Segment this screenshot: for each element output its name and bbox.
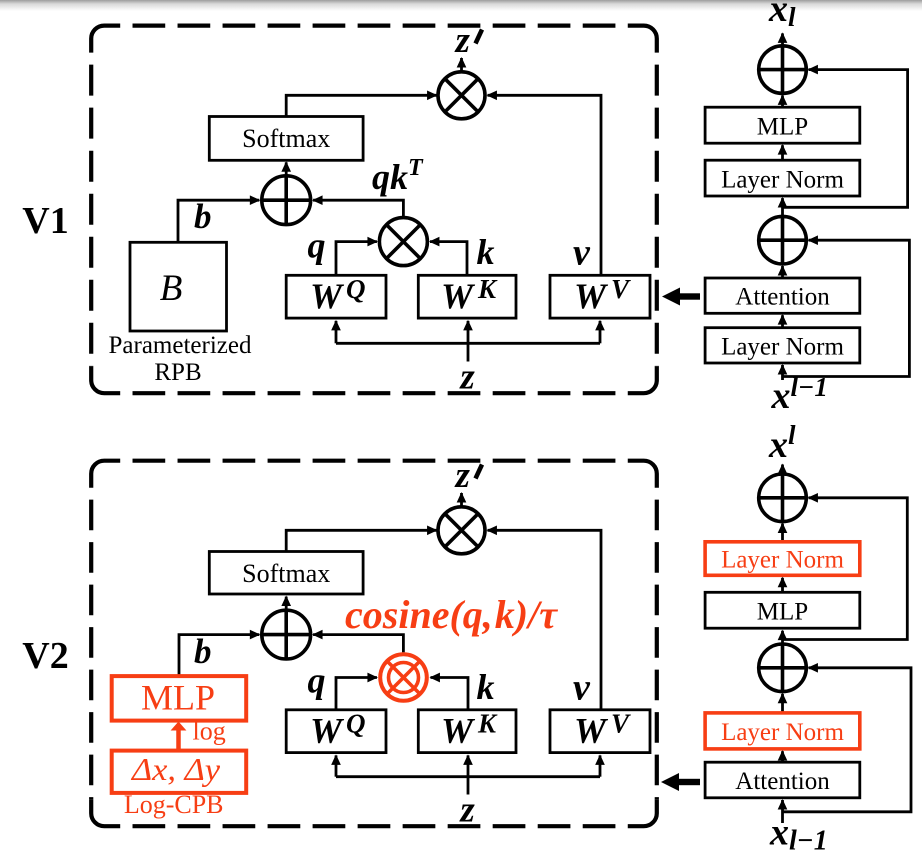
wire z to WV <box>599 755 602 776</box>
wire add to softmax <box>285 597 288 611</box>
wire LayerNorm1 to add1 <box>781 524 784 542</box>
svg-text:K: K <box>477 709 498 739</box>
WV box <box>550 275 650 318</box>
svg-text:Attention: Attention <box>735 768 830 795</box>
svg-text:W: W <box>574 276 609 316</box>
svg-text:Q: Q <box>346 709 366 739</box>
svg-text:Δx, Δy: Δx, Δy <box>130 751 221 787</box>
wire z to WV <box>599 321 602 343</box>
svg-text:q: q <box>308 661 326 701</box>
wire k from WK to multiply <box>431 678 469 710</box>
svg-text:Layer Norm: Layer Norm <box>721 547 844 574</box>
svg-text:v: v <box>573 232 591 274</box>
wire multiply to z' <box>460 58 463 72</box>
svg-text:k: k <box>477 232 495 272</box>
svg-text:z: z <box>454 20 471 61</box>
wire LayerNorm2 to Attention <box>781 315 784 328</box>
WK box <box>418 710 516 753</box>
Layer Norm box (before attention) <box>705 328 860 363</box>
wire z to WK <box>467 321 470 362</box>
wire softmax output to multiply <box>286 95 436 116</box>
svg-text:Layer Norm: Layer Norm <box>721 333 844 360</box>
svg-text:z: z <box>458 790 475 831</box>
svg-text:W: W <box>574 711 609 751</box>
svg-text:Parameterized: Parameterized <box>109 332 252 359</box>
Softmax box <box>209 117 363 161</box>
svg-text:Log-CPB: Log-CPB <box>124 790 224 819</box>
svg-text:B: B <box>160 268 183 309</box>
svg-text:q: q <box>308 226 326 266</box>
wire z distribution bus <box>336 342 600 345</box>
wire z to WQ <box>335 321 338 343</box>
svg-text:W: W <box>441 276 476 316</box>
WK box <box>418 275 516 318</box>
svg-text:V2: V2 <box>22 635 68 677</box>
wire x_{l-1} input to LayerNorm2 <box>781 365 784 380</box>
wire z to WQ <box>335 755 338 776</box>
wire MLP to add1 <box>781 95 784 107</box>
wire skip connection (upper) <box>783 498 908 640</box>
svg-text:xl: xl <box>768 0 796 32</box>
wire LayerNorm2 to add2 <box>781 694 784 713</box>
svg-text:V1: V1 <box>22 200 68 242</box>
svg-text:z: z <box>458 357 475 398</box>
svg-text:v: v <box>573 667 591 709</box>
wire add1 to x_l <box>781 33 784 45</box>
wire add2 to LayerNorm <box>781 198 784 216</box>
wire add2 to MLP <box>781 631 784 644</box>
add node (attention skip) <box>759 644 807 692</box>
svg-text:Softmax: Softmax <box>242 124 330 153</box>
wire x_{l-1} input to Attention <box>781 800 784 823</box>
wire z to WK <box>467 755 470 794</box>
Attention box <box>705 278 860 313</box>
add node (attention skip) <box>759 216 807 264</box>
add node (b + qkT) <box>262 176 311 225</box>
wire add to softmax <box>285 162 288 176</box>
svg-text:W: W <box>310 711 345 751</box>
wire Attention to LayerNorm2 <box>781 751 784 762</box>
wire cosine from multiply to add <box>313 635 403 653</box>
wire skip connection (lower) <box>783 668 912 812</box>
wire q from WQ to multiply <box>336 242 377 275</box>
wire b from B box to add <box>178 200 259 242</box>
Attention box <box>705 762 860 798</box>
Softmax box <box>209 552 363 595</box>
svg-text:W: W <box>310 276 345 316</box>
add node (MLP skip) <box>759 474 807 522</box>
Layer Norm box (red, after attention) <box>705 713 860 749</box>
wire MLP to LayerNorm1 <box>781 578 784 593</box>
wire add1 to x^l <box>781 465 784 474</box>
B box (parameterized bias) <box>130 242 227 331</box>
arrow attention applies to attention in block <box>678 779 700 785</box>
svg-text:z: z <box>454 455 471 496</box>
svg-text:log: log <box>193 717 226 746</box>
wire z distribution bus <box>336 775 600 778</box>
MLP box <box>705 592 860 628</box>
Layer Norm box (red, after MLP) <box>705 542 860 576</box>
WQ box <box>286 710 386 753</box>
wire v from WV to multiply <box>488 95 602 275</box>
svg-text:K: K <box>477 274 498 304</box>
svg-text:k: k <box>477 667 495 707</box>
svg-text:Layer Norm: Layer Norm <box>721 719 844 746</box>
svg-text:Layer Norm: Layer Norm <box>721 166 844 193</box>
svg-text:V: V <box>611 709 631 739</box>
multiply node (scaled cosine, red) <box>380 654 427 701</box>
V1 dashed block border <box>91 26 657 394</box>
add node (MLP skip) <box>759 46 807 94</box>
wire skip connection (lower) <box>783 240 910 376</box>
svg-text:V: V <box>611 274 631 304</box>
wire k from WK to multiply <box>430 242 467 275</box>
multiply node (matmul of softmax and v) <box>438 507 485 554</box>
add node (b + cosine) <box>262 610 311 659</box>
wire qkT from multiply to add <box>313 200 403 218</box>
wire log arrow from dxdy to MLP (red) <box>176 730 181 751</box>
top shadow bar <box>0 0 922 11</box>
multiply node (q x k) <box>379 218 427 266</box>
svg-text:b: b <box>194 632 212 671</box>
multiply node (matmul of softmax and v) <box>438 72 485 119</box>
dx,dy box (red) <box>112 751 247 793</box>
wire b from MLP to add <box>179 635 259 677</box>
WQ box <box>286 275 386 318</box>
wire LayerNorm to MLP <box>781 145 784 160</box>
wire softmax output to multiply <box>286 530 436 551</box>
svg-text:b: b <box>194 197 212 236</box>
svg-text:MLP: MLP <box>757 599 808 626</box>
WV box <box>550 710 650 753</box>
svg-text:Attention: Attention <box>735 284 830 311</box>
wire v from WV to multiply <box>488 530 602 710</box>
V2 dashed block border <box>91 461 657 827</box>
wire multiply to z' <box>460 493 463 507</box>
svg-text:MLP: MLP <box>141 678 215 718</box>
wire skip connection (upper) <box>783 70 908 208</box>
MLP box <box>705 107 860 143</box>
wire q from WQ to multiply <box>336 678 377 710</box>
arrow attention applies to WV <box>679 293 701 299</box>
wire Attention to add2 <box>781 266 784 278</box>
svg-text:MLP: MLP <box>757 114 808 141</box>
svg-text:RPB: RPB <box>154 359 201 386</box>
svg-text:cosine(q,k)/τ: cosine(q,k)/τ <box>345 592 558 637</box>
svg-text:Q: Q <box>346 274 366 304</box>
MLP box (red, log-CPB) <box>112 676 247 721</box>
svg-text:Softmax: Softmax <box>242 559 330 588</box>
Layer Norm box (before MLP) <box>705 160 860 196</box>
svg-text:W: W <box>441 711 476 751</box>
